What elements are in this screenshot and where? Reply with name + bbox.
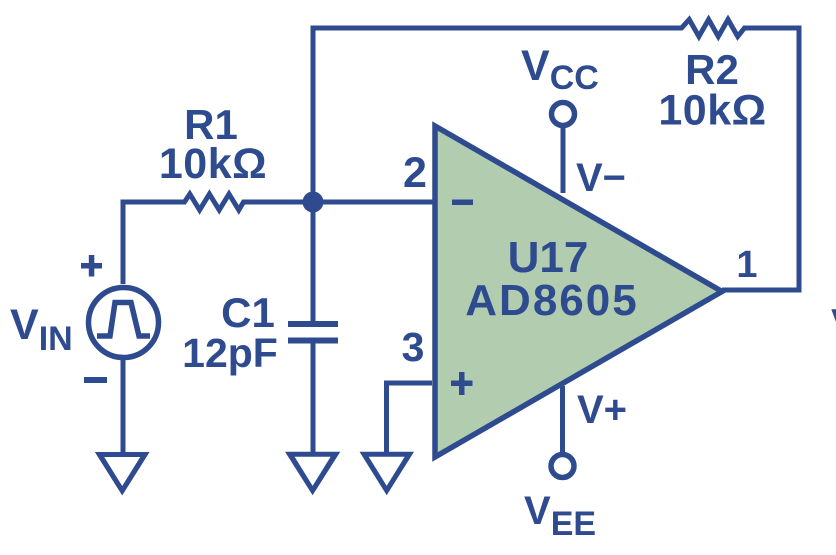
svg-text:C1: C1 <box>221 289 275 336</box>
ground (V_IN) <box>95 452 150 496</box>
ground (C1) <box>285 452 340 496</box>
wire + resistor R1 zigzag <box>123 194 434 284</box>
wire feedback net with resistor R2: junction vertical, top wire, right side down, output to op-amp tip <box>313 20 799 327</box>
svg-text:3: 3 <box>402 324 425 370</box>
svg-text:V−: V− <box>576 156 626 200</box>
label - (source negative) <box>84 377 107 383</box>
svg-text:U17: U17 <box>508 233 589 282</box>
svg-text:2: 2 <box>403 149 427 197</box>
svg-text:V+: V+ <box>577 388 627 432</box>
svg-text:10kΩ: 10kΩ <box>159 140 267 188</box>
svg-text:AD8605: AD8605 <box>465 276 638 325</box>
wire C1 bottom to ground <box>311 343 316 452</box>
ground (pin 3) <box>360 452 415 496</box>
terminal circle V_CC <box>552 103 575 126</box>
svg-text:V: V <box>831 300 836 347</box>
op-amp U17 triangle <box>435 126 722 457</box>
wire V_EE terminal to op-amp bottom edge <box>560 386 565 453</box>
op-amp minus input marker <box>452 200 473 206</box>
svg-text:12pF: 12pF <box>182 330 278 376</box>
capacitor C1 plates <box>288 324 338 341</box>
wire V_IN bottom to ground <box>121 358 126 452</box>
source V_IN pulse symbol <box>97 303 150 337</box>
op-amp plus input marker <box>451 372 473 395</box>
wire V_CC terminal to op-amp top edge <box>561 126 566 193</box>
node junction dot <box>303 192 324 213</box>
source V_IN circle <box>89 288 159 358</box>
label + (source positive) <box>81 255 102 277</box>
wire pin3 ground to op-amp non-inverting input <box>387 383 433 453</box>
svg-text:1: 1 <box>736 244 757 286</box>
wire + resistor R2 zigzag <box>313 20 799 327</box>
svg-text:10kΩ: 10kΩ <box>658 87 766 135</box>
wire input net with resistor R1: V_IN corner to op-amp inverting input <box>123 194 434 284</box>
terminal circle V_EE <box>551 455 574 478</box>
